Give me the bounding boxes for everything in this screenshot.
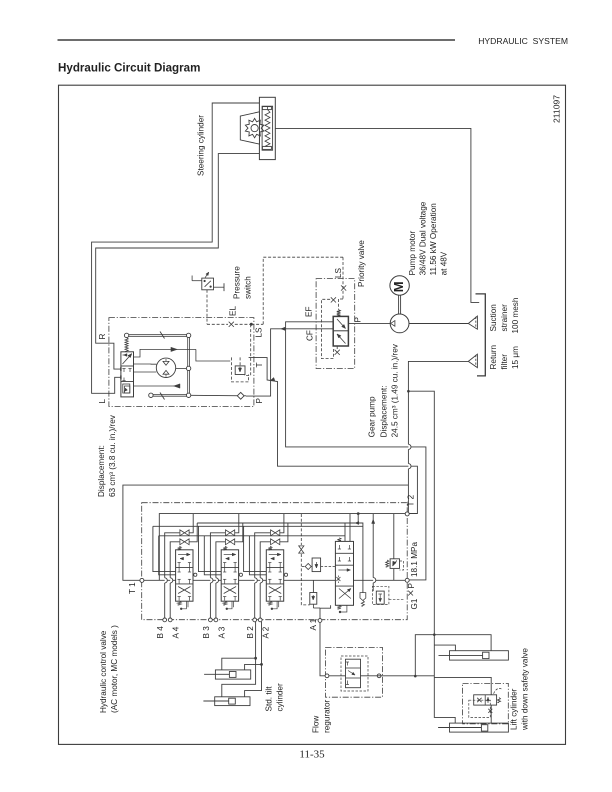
steering relief valve [235, 366, 245, 375]
pump motor M [390, 276, 409, 295]
svg-text:Pump motor: Pump motor [408, 231, 417, 276]
priority valve pilot feedback dashed box [322, 299, 334, 358]
wire steering internal to relief [196, 349, 230, 361]
svg-text:LS: LS [255, 327, 264, 338]
svg-text:B 3: B 3 [202, 626, 211, 639]
T1 to P rail [144, 579, 405, 581]
suction strainer [468, 316, 477, 329]
svg-text:P: P [255, 398, 264, 404]
wire return arrow [134, 385, 181, 387]
svg-text:cylinder: cylinder [276, 683, 285, 711]
wire B2 to tilt cylinders [222, 622, 256, 670]
steering unit boundary [109, 318, 254, 407]
A1 node [318, 619, 322, 623]
wire return filter to T2 [408, 361, 468, 444]
work line A 2 [259, 583, 261, 618]
svg-text:A 1: A 1 [309, 618, 318, 630]
svg-text:at 48V: at 48V [440, 251, 449, 275]
svg-text:11.56 kW Operation: 11.56 kW Operation [429, 203, 438, 276]
LS pilot to steering relief [244, 324, 251, 375]
gerotor metering unit [156, 358, 175, 377]
work line A 3 [215, 583, 217, 618]
steering valve port ticks [120, 367, 122, 371]
gallery C [159, 535, 345, 537]
svg-text:Hydraulic Circuit Diagram: Hydraulic Circuit Diagram [58, 62, 200, 75]
work port nodes B 2 A 2 [253, 618, 257, 622]
svg-text:T: T [255, 362, 264, 367]
svg-text:HYDRAULIC SYSTEM: HYDRAULIC SYSTEM [478, 36, 568, 46]
svg-text:A 2: A 2 [262, 626, 271, 638]
wire valve to gerotor [134, 363, 157, 365]
svg-text:A 4: A 4 [172, 626, 181, 638]
svg-text:T 1: T 1 [128, 582, 137, 594]
svg-text:LS: LS [334, 267, 343, 278]
work port nodes B 3 A 3 [209, 618, 213, 622]
svg-text:Hydraulic control valve: Hydraulic control valve [99, 630, 108, 713]
LS orifice [229, 322, 234, 327]
svg-text:EF: EF [305, 307, 314, 317]
steering cylinder pinion housing [240, 112, 259, 144]
return filter [468, 354, 477, 367]
steering cylinder rack spring [265, 110, 270, 147]
upper lift cylinder [450, 651, 509, 660]
motor shaft [398, 295, 400, 314]
svg-text:B 4: B 4 [156, 626, 165, 639]
wire branch to lift trunk [407, 390, 410, 393]
T1 node [140, 578, 144, 582]
section outlet node [239, 573, 242, 576]
hydraulic tank [476, 294, 486, 376]
svg-text:Priority valve: Priority valve [357, 240, 366, 287]
pressure switch lever [192, 280, 202, 282]
svg-text:strainer: strainer [500, 304, 509, 332]
svg-text:(AC motor, MC models ): (AC motor, MC models ) [110, 625, 119, 713]
wire pump suction [409, 323, 468, 325]
svg-text:Displacement:: Displacement: [380, 386, 389, 438]
wire steering T out [249, 358, 418, 514]
T2 node [405, 512, 409, 516]
priority valve body [333, 316, 348, 346]
pressure switch body [202, 278, 214, 290]
svg-text:Suction: Suction [489, 304, 498, 332]
wire priority CF to steering P [246, 329, 333, 396]
section feed drops [244, 526, 267, 571]
svg-text:Return: Return [489, 344, 498, 369]
wire to upper lift cylinder piston [414, 675, 417, 678]
svg-text:regurator: regurator [323, 700, 332, 733]
wire A1 to flow regulator [320, 622, 325, 675]
wire A2 to tilt cylinders [245, 622, 262, 670]
work port nodes B 4 A 4 [163, 618, 167, 622]
wire steering cylinder return to tank [275, 128, 479, 302]
shuttle diamond [305, 564, 311, 570]
svg-text:36/48V Dual voltage: 36/48V Dual voltage [419, 201, 428, 275]
gear pump [390, 314, 409, 333]
svg-text:filter: filter [500, 354, 509, 370]
svg-text:Gear pump: Gear pump [368, 396, 377, 437]
wire to upper lift cylinder rod side [434, 645, 455, 651]
svg-text:M: M [391, 281, 406, 292]
lift trunk lower [434, 635, 455, 723]
svg-text:R: R [98, 334, 107, 340]
safety valve pilots [469, 700, 491, 717]
G1 port [408, 591, 413, 596]
section outlet node [194, 573, 197, 576]
section feed drops [199, 526, 222, 571]
svg-text:P: P [354, 317, 363, 323]
down safety valve boundary [463, 683, 509, 724]
lift lowering pilot dashed [300, 514, 302, 545]
tilt cylinder lower [215, 697, 250, 706]
svg-text:G1: G1 [410, 598, 419, 609]
work line B 2 [254, 583, 256, 618]
section pilot [228, 601, 232, 609]
work line A 4 [169, 583, 171, 618]
svg-text:Flow: Flow [312, 716, 321, 733]
svg-text:with down safety valve: with down safety valve [521, 648, 530, 731]
tank gallery upper [159, 514, 405, 581]
svg-text:A 3: A 3 [217, 626, 226, 638]
tilt cylinder upper [215, 670, 250, 679]
flow regulator valve [346, 659, 361, 688]
anticavitation check B line [372, 514, 374, 578]
svg-text:100 mesh: 100 mesh [511, 297, 520, 333]
wire priority EF [286, 322, 426, 580]
section spring [223, 546, 227, 549]
anticavitation check A [360, 593, 366, 601]
flow regulator boundary [326, 647, 383, 697]
steering control valve [121, 352, 134, 397]
work line B 3 [209, 583, 211, 618]
priority valve pilot LS line [342, 257, 344, 299]
svg-text:Displacement:: Displacement: [97, 445, 106, 497]
pressure switch actuator arrow [205, 273, 209, 278]
steering control valve spring [125, 338, 128, 352]
A1 riser into section4 [320, 605, 331, 618]
svg-text:EL: EL [229, 306, 238, 316]
wire pump to priority valve P [348, 323, 390, 325]
svg-text:P: P [407, 583, 416, 589]
svg-text:T 2: T 2 [407, 494, 416, 506]
steering cylinder body [259, 97, 275, 159]
pressure switch pilot line [206, 290, 208, 325]
section outlet node [284, 573, 287, 576]
flow regulator nodes [325, 674, 329, 678]
LS dashed line steering to priority [251, 323, 263, 325]
svg-text:18.1 MPa: 18.1 MPa [410, 542, 419, 577]
svg-text:211097: 211097 [552, 95, 562, 123]
gallery A [197, 514, 358, 523]
svg-text:15 μm: 15 μm [511, 346, 520, 369]
gallery A to anticavitation check [358, 523, 363, 593]
work line B 4 [164, 583, 166, 618]
svg-text:L: L [98, 399, 107, 404]
section spring [178, 546, 182, 549]
svg-text:Pressure: Pressure [233, 266, 242, 299]
svg-text:CF: CF [306, 330, 315, 341]
steering pinion gear [245, 118, 263, 137]
lower lift cylinder [450, 723, 509, 732]
gallery B [153, 525, 363, 527]
section pilot [273, 601, 277, 609]
section 4 top risers [344, 523, 346, 541]
P node [405, 578, 409, 582]
down safety valve [474, 695, 497, 705]
wire flow regulator out [361, 675, 435, 677]
diagram frame [59, 85, 566, 744]
section spring [268, 546, 272, 549]
wire gerotor to linkage [176, 367, 187, 369]
hydraulic control valve boundary [142, 503, 408, 620]
wire T1 tank return loop [123, 485, 409, 580]
wire steering cylinder R port [96, 154, 260, 370]
section pilot [182, 601, 186, 609]
control valve section spool A 4/B 4 [176, 550, 193, 601]
control valve section 4 lift spool [335, 541, 353, 605]
port relief B [310, 593, 317, 605]
pressure switch ground [214, 286, 225, 288]
svg-text:24.5 cm³ (1.49 cu. in.)/rev: 24.5 cm³ (1.49 cu. in.)/rev [391, 343, 400, 437]
svg-text:Std. tilt: Std. tilt [265, 686, 274, 712]
svg-text:63 cm³ (3.8 cu. in.)/rev: 63 cm³ (3.8 cu. in.)/rev [108, 414, 117, 497]
svg-text:11-35: 11-35 [299, 749, 325, 761]
wire steering P check valve [191, 394, 246, 397]
wire to safety valve [434, 677, 491, 694]
wire safety valve to lower cylinder [490, 705, 492, 723]
anticavitation check B [372, 586, 389, 604]
port relief A [312, 558, 321, 572]
svg-text:switch: switch [244, 276, 253, 299]
wire steering cylinder L port [92, 103, 260, 393]
svg-text:B 2: B 2 [246, 626, 255, 639]
svg-text:Lift cylinder: Lift cylinder [510, 688, 519, 730]
control valve section spool A 2/B 2 [266, 550, 283, 601]
svg-text:Steering cylinder: Steering cylinder [197, 115, 206, 176]
control valve section spool A 3/B 3 [221, 550, 238, 601]
wire steering supply arrow [134, 349, 196, 357]
section feed drops [153, 526, 176, 571]
header rule [58, 39, 456, 41]
priority valve spring [337, 310, 341, 317]
relief valve 18.1MPa [393, 514, 395, 559]
priority valve boundary [316, 279, 355, 369]
steering feedback linkage frame [127, 334, 189, 336]
linkage pivot nodes [124, 333, 128, 337]
